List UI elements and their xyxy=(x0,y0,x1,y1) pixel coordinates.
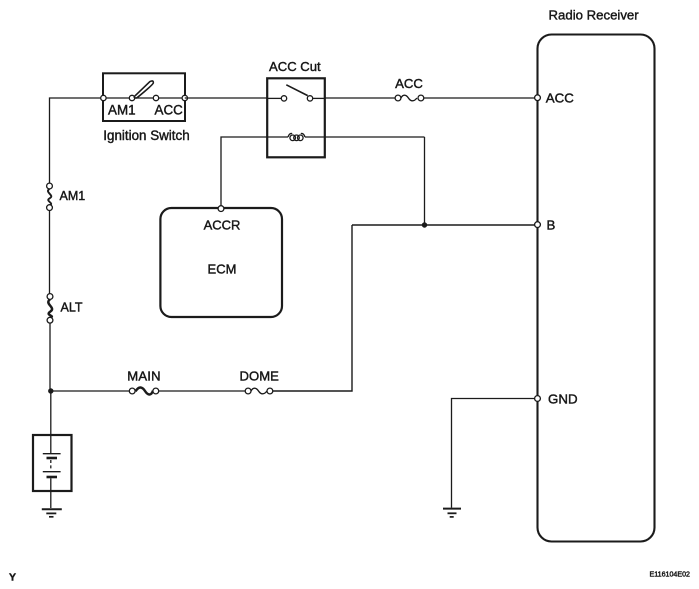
wire: junction down into battery xyxy=(50,391,52,454)
ignition switch terminal circles xyxy=(101,95,188,100)
fusible link MAIN xyxy=(129,388,158,395)
wire: ALT link down to battery junction xyxy=(49,323,51,391)
relay ACC Cut box xyxy=(267,78,325,157)
pin ACC of radio xyxy=(535,95,541,101)
junction node (coil / B bus) xyxy=(422,222,427,227)
svg-text:GND: GND xyxy=(548,391,578,406)
wire: fuse ACC to radio pin ACC xyxy=(424,97,535,99)
svg-text:E116104E02: E116104E02 xyxy=(650,571,691,579)
wire: junction to MAIN fusible link xyxy=(50,390,129,392)
junction node (battery / ALT / MAIN) xyxy=(48,388,53,393)
pin B of radio xyxy=(535,222,541,228)
svg-text:ALT: ALT xyxy=(61,301,83,315)
pin ACCR circle xyxy=(218,206,224,212)
relay switch blade xyxy=(286,85,307,96)
svg-text:Ignition Switch: Ignition Switch xyxy=(103,128,189,143)
wire: ECM ACCR up and right to relay coil xyxy=(221,137,267,209)
wire: DOME up to B bus xyxy=(273,225,352,391)
relay contact circles xyxy=(281,96,286,101)
ECM box xyxy=(160,208,282,317)
ignition switch box xyxy=(103,73,185,121)
pin GND of radio xyxy=(535,396,541,402)
relay coil xyxy=(288,133,305,137)
ignition switch blade xyxy=(134,81,153,98)
wire: battery feed from ignition switch AM1 down left side xyxy=(50,98,104,183)
fuse DOME xyxy=(245,388,273,394)
fusible link AM1 xyxy=(47,183,53,210)
svg-text:B: B xyxy=(547,217,556,232)
wire: relay coil output down to B bus xyxy=(424,137,426,225)
fusible link ALT xyxy=(47,294,53,324)
wire: ignition switch to ACC Cut relay xyxy=(185,97,267,99)
wire: AM1 link to ALT link xyxy=(49,211,51,294)
wire through ignition switch contacts xyxy=(103,97,185,99)
svg-text:AM1: AM1 xyxy=(60,189,86,203)
wire: GND pin to chassis ground xyxy=(452,399,535,508)
svg-text:MAIN: MAIN xyxy=(127,369,161,384)
svg-text:Radio Receiver: Radio Receiver xyxy=(549,8,640,23)
svg-text:ACC: ACC xyxy=(155,103,184,118)
relay contact wires inside box xyxy=(267,97,281,99)
relay coil leads inside box xyxy=(267,136,288,138)
wire: B bus to radio pin B xyxy=(352,224,535,226)
svg-text:DOME: DOME xyxy=(240,369,280,384)
ground (radio GND) xyxy=(443,509,461,517)
svg-text:Y: Y xyxy=(9,572,16,584)
svg-text:ACC: ACC xyxy=(546,91,574,106)
svg-text:AM1: AM1 xyxy=(108,103,136,118)
svg-text:ECM: ECM xyxy=(208,262,237,277)
fuse ACC xyxy=(395,95,424,101)
wire: relay coil to its drop wire xyxy=(325,136,425,138)
svg-text:ACC: ACC xyxy=(395,76,423,91)
svg-text:ACC Cut: ACC Cut xyxy=(269,59,321,74)
svg-text:ACCR: ACCR xyxy=(204,218,241,233)
radio receiver box xyxy=(538,35,655,542)
battery plates xyxy=(43,454,61,508)
wire: ACC Cut to fuse ACC xyxy=(325,97,395,99)
wire: MAIN to DOME xyxy=(159,390,246,392)
ground (battery) xyxy=(42,509,62,517)
battery box xyxy=(33,435,72,491)
